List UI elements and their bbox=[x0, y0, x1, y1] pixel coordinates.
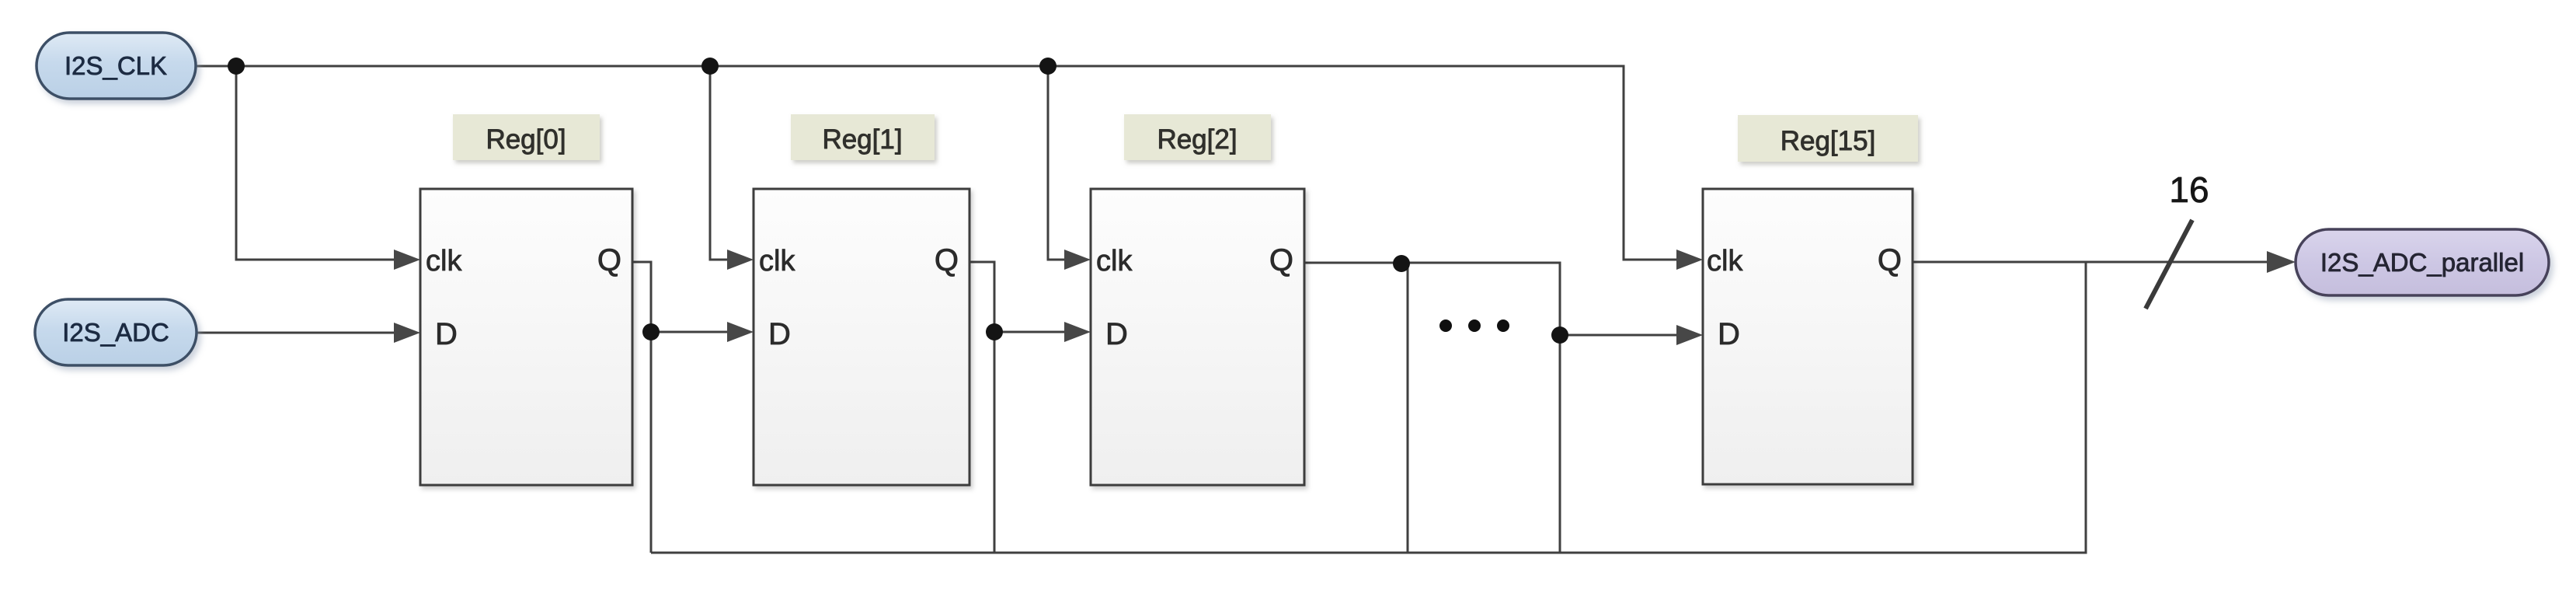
label tag Reg[15] bbox=[1738, 115, 1918, 162]
svg-text:I2S_CLK: I2S_CLK bbox=[64, 51, 167, 80]
svg-text:Reg[15]: Reg[15] bbox=[1781, 126, 1876, 156]
svg-text:Reg[2]: Reg[2] bbox=[1157, 124, 1237, 155]
bus width slash bbox=[2146, 220, 2192, 309]
register Reg[0] body bbox=[420, 189, 632, 485]
svg-text:D: D bbox=[768, 317, 791, 351]
junction node at Reg[1] Q tap bbox=[986, 323, 1003, 340]
svg-text:clk: clk bbox=[1707, 245, 1743, 278]
wire: Reg[15] D tap drop to bottom bus bbox=[1559, 335, 1561, 553]
svg-text:clk: clk bbox=[1096, 245, 1133, 278]
wire: clock drop to Reg[2] clk bbox=[1048, 66, 1064, 260]
svg-text:D: D bbox=[435, 317, 458, 351]
wire: I2S_ADC to Reg[0] D input bbox=[197, 332, 394, 334]
register Reg[2] body bbox=[1091, 189, 1304, 485]
wire: Reg[1] Q drop to bottom bus bbox=[994, 332, 996, 553]
register Reg[15] body bbox=[1703, 189, 1913, 484]
arrow into Reg[2] clk pin bbox=[1064, 250, 1091, 270]
wire: I2S_CLK top clock bus from pill to Reg[15] clk corner bbox=[196, 66, 1676, 260]
junction node at Reg[15] D tap bbox=[1551, 326, 1568, 344]
port I2S_ADC_parallel bbox=[2296, 229, 2549, 295]
label tag Reg[2] bbox=[1124, 114, 1271, 160]
port I2S_CLK bbox=[37, 33, 196, 99]
arrow into Reg[2] D pin bbox=[1064, 322, 1091, 342]
arrow into I2S_ADC_parallel port bbox=[2267, 251, 2296, 273]
svg-text:Reg[0]: Reg[0] bbox=[486, 124, 566, 155]
port I2S_ADC bbox=[35, 299, 197, 365]
wire: clock drop to Reg[0] clk bbox=[236, 66, 394, 260]
junction node B on clock bus bbox=[701, 58, 719, 75]
junction node C on clock bus bbox=[1039, 58, 1057, 75]
svg-text:I2S_ADC: I2S_ADC bbox=[62, 318, 169, 347]
wire: Reg[2] Q branch drop to bottom bus bbox=[1407, 263, 1409, 553]
arrow into Reg[15] clk pin bbox=[1676, 250, 1703, 270]
register Reg[1] body bbox=[754, 189, 969, 485]
arrow into Reg[15] D pin bbox=[1676, 325, 1703, 345]
wire: clock drop to Reg[1] clk bbox=[710, 66, 727, 260]
junction node on Reg[2] Q line bbox=[1393, 255, 1410, 272]
arrow into Reg[0] clk pin bbox=[394, 250, 420, 270]
wire: bottom feedback bus collecting Q outputs bbox=[651, 262, 2086, 553]
svg-text:I2S_ADC_parallel: I2S_ADC_parallel bbox=[2320, 248, 2524, 277]
svg-text:16: 16 bbox=[2169, 169, 2209, 210]
wire: Reg[15] Q to output port bbox=[1913, 261, 2268, 264]
wire: Reg[1] Q to Reg[2] D bbox=[969, 262, 1064, 332]
junction node at Reg[0] Q tap bbox=[642, 323, 660, 340]
svg-text:Q: Q bbox=[935, 243, 959, 278]
svg-text:Q: Q bbox=[597, 243, 621, 278]
arrow into Reg[0] D pin bbox=[394, 323, 420, 343]
junction node A on clock bus bbox=[228, 58, 245, 75]
svg-text:Q: Q bbox=[1878, 243, 1902, 278]
svg-text:Q: Q bbox=[1269, 243, 1293, 278]
arrow into Reg[1] clk pin bbox=[727, 250, 754, 270]
wire: Reg[2] Q across to Reg[15] D bbox=[1304, 263, 1676, 335]
ellipsis between Reg[2] and Reg[15] bbox=[1439, 319, 1509, 332]
svg-text:D: D bbox=[1718, 317, 1740, 351]
svg-text:Reg[1]: Reg[1] bbox=[822, 124, 902, 155]
svg-text:clk: clk bbox=[426, 245, 462, 278]
svg-text:D: D bbox=[1105, 317, 1128, 351]
svg-text:clk: clk bbox=[759, 245, 795, 278]
wire: Reg[0] Q to Reg[1] D bbox=[632, 262, 727, 332]
label tag Reg[0] bbox=[453, 114, 600, 160]
arrow into Reg[1] D pin bbox=[727, 322, 754, 342]
wire: Reg[0] Q drop to bottom bus bbox=[650, 332, 653, 553]
label tag Reg[1] bbox=[791, 114, 935, 160]
